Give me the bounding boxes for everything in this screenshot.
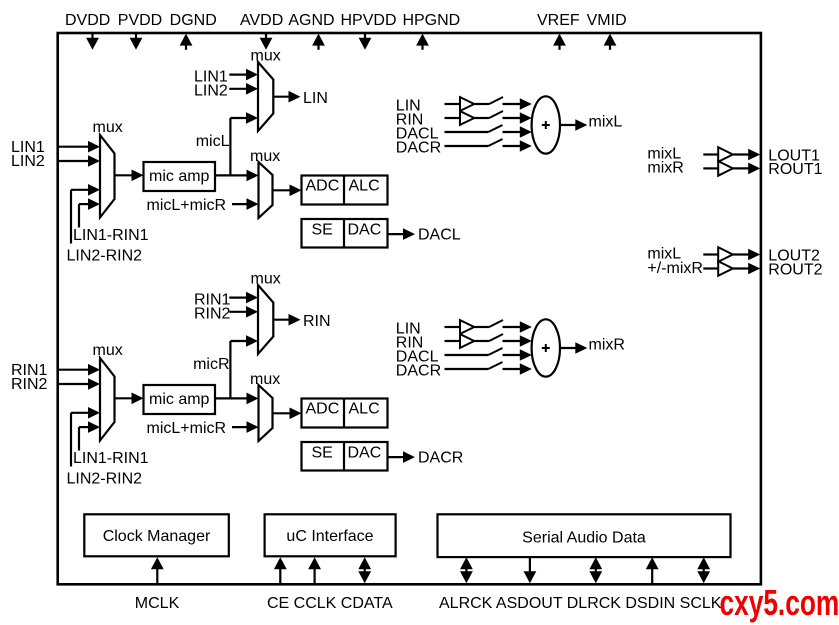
svg-text:MCLK: MCLK [135, 595, 180, 612]
wire LIN2 to input mux L [58, 155, 100, 167]
mixer mixR wire DACL [445, 354, 489, 356]
mixer mixR buffer for RIN [445, 334, 490, 348]
wire micL+micR to record mux L [232, 198, 259, 210]
svg-text:ADC: ADC [306, 178, 340, 195]
svg-text:SE: SE [312, 221, 333, 238]
output buffer ROUT1 [703, 161, 760, 176]
wire output mux R to RIN [273, 314, 300, 326]
svg-text:mic amp: mic amp [149, 391, 210, 408]
power pin arrow DGND [180, 34, 193, 50]
summer plus sign mixR [542, 344, 550, 352]
svg-text:LIN2-RIN2: LIN2-RIN2 [67, 471, 143, 488]
svg-text:ALC: ALC [349, 401, 380, 418]
wire mic amp L output to record mux [215, 170, 259, 182]
svg-text:RIN2: RIN2 [194, 305, 231, 322]
mixer mixR arrow DACR into summer [503, 363, 532, 375]
summer plus sign mixL [542, 121, 550, 129]
mixer mixL arrow DACR into summer [503, 140, 532, 152]
svg-text:ROUT1: ROUT1 [768, 161, 822, 178]
svg-text:mux: mux [93, 342, 123, 359]
mixer mixL arrow LIN into summer [503, 98, 532, 110]
output buffer LOUT2 [703, 247, 760, 262]
mixer mixL switch for RIN [489, 111, 503, 118]
svg-text:ROUT2: ROUT2 [768, 261, 822, 278]
svg-text:mux: mux [251, 271, 281, 288]
bottom pin arrow MCLK [151, 557, 164, 583]
svg-text:LIN2-RIN2: LIN2-RIN2 [67, 248, 143, 265]
svg-text:DACL: DACL [418, 227, 461, 244]
mixer mixL switch for DACR [488, 139, 502, 146]
svg-text:micR: micR [193, 356, 229, 373]
svg-text:LIN1-RIN1: LIN1-RIN1 [73, 450, 149, 467]
input mux R-channel [100, 358, 115, 441]
wire record mux L to ADC [273, 185, 302, 197]
mixer mixR switch for DACL [488, 348, 502, 355]
wire LIN1-RIN1 to input mux R [71, 407, 100, 467]
bottom pin arrow ASDOUT [524, 557, 537, 583]
SE DAC block R [302, 442, 388, 471]
wire input mux R to mic amp [115, 393, 144, 405]
svg-text:RIN2: RIN2 [11, 376, 48, 393]
svg-text:cxy5.com: cxy5.com [720, 582, 839, 623]
record mux R [259, 385, 273, 441]
svg-text:LIN2: LIN2 [11, 153, 45, 170]
wire RIN2 to input mux R [58, 378, 100, 390]
svg-text:micL+micR: micL+micR [147, 420, 227, 437]
wire LIN2-RIN2 to input mux L [79, 198, 100, 227]
wire input mux L to mic amp [115, 170, 144, 182]
wire LIN1 to input mux L [58, 141, 100, 153]
bottom pin arrow DSDIN [646, 557, 659, 583]
svg-text:mixR: mixR [647, 160, 683, 177]
output mux R [258, 285, 273, 354]
wire LIN2 to output mux L [229, 83, 258, 95]
wire RIN1 to input mux R [58, 364, 100, 376]
wire DAC R output [388, 451, 416, 463]
svg-text:LIN1-RIN1: LIN1-RIN1 [73, 227, 149, 244]
mixer mixL switch for LIN [489, 97, 503, 104]
Serial Audio Data block [438, 514, 731, 557]
svg-text:mic amp: mic amp [149, 168, 210, 185]
mixer mixR arrow DACL into summer [503, 349, 532, 361]
mixer mixL arrow RIN into summer [503, 112, 532, 124]
mixer mixR switch for LIN [489, 320, 503, 327]
wire summer to mixR [560, 342, 587, 354]
svg-text:mixR: mixR [589, 337, 625, 354]
mixer mixR wire DACR [445, 368, 489, 370]
svg-text:DAC: DAC [348, 221, 382, 238]
svg-text:RIN: RIN [303, 313, 331, 330]
svg-text:DVDD PVDD DGND: DVDD PVDD DGND [65, 12, 217, 29]
svg-text:ALRCK ASDOUT DLRCK DSDIN SCLK: ALRCK ASDOUT DLRCK DSDIN SCLK [439, 595, 722, 612]
mixer mixL buffer for RIN [445, 111, 490, 125]
uC Interface block [265, 514, 396, 556]
svg-text:LIN2: LIN2 [194, 82, 228, 99]
svg-text:mixL: mixL [589, 114, 623, 131]
svg-text:VREF VMID: VREF VMID [537, 12, 627, 29]
svg-text:DACR: DACR [396, 362, 441, 379]
chip outline border [58, 33, 761, 584]
wire output mux L to LIN [273, 91, 300, 103]
svg-text:+/-mixR: +/-mixR [647, 260, 703, 277]
svg-text:mux: mux [93, 119, 123, 136]
Clock Manager block [84, 514, 229, 556]
bottom pin arrow CCLK [308, 557, 321, 583]
power pin arrow HPVDD [359, 33, 372, 50]
bottom pin arrow CDATA [358, 557, 371, 583]
summer ellipse mixL [532, 96, 560, 153]
wire RIN2 to output mux R [229, 306, 258, 318]
svg-text:mux: mux [250, 371, 280, 388]
svg-text:ALC: ALC [349, 178, 380, 195]
power pin arrow VREF [553, 34, 566, 50]
input mux L-channel [100, 135, 115, 218]
SE DAC block L [302, 219, 388, 248]
output buffer ROUT2 [703, 261, 760, 276]
output mux L [258, 62, 273, 131]
mixer mixL buffer for LIN [445, 97, 490, 111]
wire record mux R to ADC [273, 408, 302, 420]
bottom pin arrow ALRCK [460, 557, 473, 583]
mixer mixL arrow DACL into summer [503, 126, 532, 138]
mixer mixR switch for DACR [488, 362, 502, 369]
mixer mixR buffer for LIN [445, 320, 490, 334]
summer ellipse mixR [532, 319, 560, 376]
svg-text:ADC: ADC [306, 401, 340, 418]
wire summer to mixL [560, 119, 587, 131]
ADC ALC block R [302, 399, 388, 428]
svg-text:DACR: DACR [396, 139, 441, 156]
wire DAC L output [388, 228, 416, 240]
svg-text:micL+micR: micL+micR [147, 197, 227, 214]
mixer mixL wire DACL [445, 131, 489, 133]
svg-text:mux: mux [251, 48, 281, 65]
mixer mixL switch for DACL [488, 125, 502, 132]
svg-text:AVDD AGND HPVDD HPGND: AVDD AGND HPVDD HPGND [240, 12, 460, 29]
output buffer LOUT1 [703, 147, 760, 162]
wire LIN1 to output mux L [229, 69, 258, 81]
wire LIN2-RIN2 to input mux R [79, 421, 100, 450]
svg-text:SE: SE [312, 444, 333, 461]
mic amp block R [144, 385, 216, 414]
wire mic amp R output to record mux [215, 393, 259, 405]
power pin arrow PVDD [130, 33, 143, 50]
svg-text:DAC: DAC [348, 444, 382, 461]
mixer mixR arrow RIN into summer [503, 335, 532, 347]
ADC ALC block L [302, 176, 388, 205]
wire RIN1 to output mux R [229, 292, 258, 304]
power pin arrow HPGND [416, 34, 429, 50]
svg-text:Clock Manager: Clock Manager [103, 528, 211, 545]
svg-text:Serial Audio Data: Serial Audio Data [522, 530, 646, 547]
power pin arrow AGND [312, 34, 325, 50]
mixer mixL wire DACR [445, 145, 489, 147]
power pin arrow VMID [604, 34, 617, 50]
mixer mixR switch for RIN [489, 334, 503, 341]
svg-text:micL: micL [196, 133, 230, 150]
bottom pin arrow CE [274, 557, 287, 583]
wire LIN1-RIN1 to input mux L [71, 184, 100, 244]
mic amp block L [144, 162, 216, 191]
svg-text:DACR: DACR [418, 450, 463, 467]
wire micR up to output mux R [230, 335, 258, 398]
bottom pin arrow SCLK [697, 557, 710, 583]
svg-text:uC Interface: uC Interface [286, 528, 373, 545]
svg-text:CE CCLK CDATA: CE CCLK CDATA [267, 595, 393, 612]
svg-text:LIN: LIN [303, 90, 328, 107]
wire micL+micR to record mux R [232, 421, 259, 433]
power pin arrow DVDD [86, 33, 99, 50]
record mux L [259, 162, 273, 218]
wire micL up to output mux L [230, 112, 258, 175]
svg-text:mux: mux [250, 148, 280, 165]
power pin arrow AVDD [260, 33, 273, 50]
bottom pin arrow DLRCK [589, 557, 602, 583]
mixer mixR arrow LIN into summer [503, 321, 532, 333]
